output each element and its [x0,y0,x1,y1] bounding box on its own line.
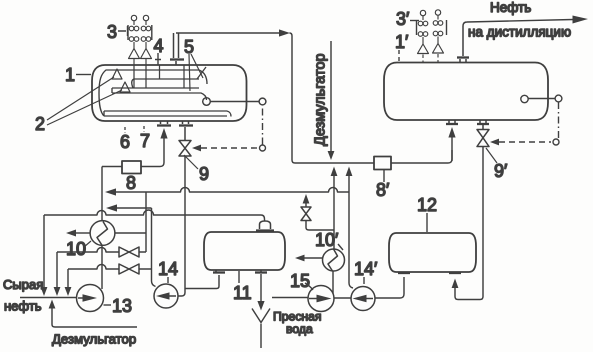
valve 9 drain pipe down to water line [178,156,185,296]
arrow on overhead line [279,29,290,36]
bowtie valve on y=269 [119,264,139,274]
level instrument circle inside vessel 1 [203,98,211,106]
recycle branch down x68 [65,269,72,296]
pump 14' [351,287,375,311]
svg-text:9: 9 [199,164,209,184]
mixer box 8 [122,161,141,174]
vessel 11 left nozzle [213,270,225,273]
pump 15 [308,286,334,312]
vessel 1' top outlet nozzle [457,26,469,63]
pump 14' riser to lines [346,167,353,289]
svg-text:10′: 10′ [315,230,339,250]
svg-text:3: 3 [107,22,117,42]
mixer box 8' [374,157,391,170]
svg-text:на дистилляцию: на дистилляцию [468,25,571,40]
heat exchanger 10' [323,249,345,271]
level tap line to shell [210,101,259,103]
vessel 1 electrode bar lower [104,111,231,117]
svg-text:Сырая: Сырая [3,277,43,292]
segment between pumps 15 and 14' [334,297,351,299]
label 10 [66,239,91,259]
vessel 12 right nozzle [449,272,461,273]
recycle water line L1 with arrow into crude riser [105,188,349,196]
label 3' [396,9,419,29]
crude riser x=102 down to exchanger 10 [101,167,103,221]
svg-text:13: 13 [112,296,132,316]
feed arrow up into vessel 1 [160,128,167,139]
svg-text:вода: вода [286,322,313,336]
valve line y=269 [68,265,152,270]
label 11 [233,271,252,303]
overhead drop pipe [290,33,375,163]
svg-text:нефть: нефть [4,299,42,314]
line box8 to crude riser [102,166,122,168]
outlet stub arrow from exchanger 10' [295,255,323,262]
vessel 1' drain nozzle [477,120,489,130]
vessel 11 right nozzle [255,270,267,273]
svg-text:3′: 3′ [396,9,410,29]
valve line y=252 [57,248,146,253]
svg-text:Дезмульгатор: Дезмульгатор [313,53,329,146]
svg-text:8′: 8′ [376,180,390,200]
bowtie valve on y=252 [119,247,139,257]
bushing 3 right post [141,15,152,65]
vessel 1' feed nozzle [446,120,458,124]
line pump15 to exchanger 10' [332,271,334,294]
branch vertical x146 from L1 [145,192,147,252]
water line W1 from valve 9 to settler 11 [44,210,265,221]
svg-text:15: 15 [290,271,310,291]
settler vessel 11 [204,232,285,270]
label 9 [184,155,209,184]
feed arrow up into vessel 1' [448,127,455,138]
external level circle [259,98,266,105]
label 6 [120,127,130,152]
bushing 3' right post [433,10,444,62]
svg-text:Дезмульгатор: Дезмульгатор [52,332,136,347]
svg-text:7: 7 [140,131,150,151]
vessel 1 bottom feed nozzle flange [157,121,171,126]
nozzle 4 on shell top [155,53,161,65]
waste water drain with funnel [252,274,270,348]
recycle branch down x44 [41,215,48,296]
vessel 1 drain nozzle flange [179,121,193,141]
recycle valve branch [301,194,334,230]
label 5 with leaders [184,37,203,91]
vessel 1 inner liner [99,67,207,116]
svg-text:1′: 1′ [395,32,409,52]
svg-text:11: 11 [233,283,252,303]
drain valve 9' [477,130,489,147]
heat exchanger 10 [90,221,115,246]
svg-text:10: 10 [66,239,86,259]
drain valve 9 [179,141,191,157]
demulsifier injection line bottom left [49,300,137,328]
drain from valve 9' into tank 12 [452,147,483,300]
second stage vessel 1' [384,63,548,121]
vessel 1 electrode bar upper [112,88,199,93]
vessel 11 top dome nozzle [256,221,274,231]
svg-text:8: 8 [126,173,136,193]
svg-text:14: 14 [158,259,178,279]
pump 14 suction from settler 11 [185,275,219,289]
feed riser from mixer 8 [141,139,164,167]
electrodehydrator vessel 1 shell [92,65,247,121]
level control dashed line to valve 9' [490,95,562,145]
electrode suspension rods and internal tubes [134,65,184,88]
bushing 3' side ticks [417,20,447,35]
label 3 [107,22,128,42]
heated water riser to mixer line [333,176,335,249]
label 12 [417,195,437,232]
svg-text:9′: 9′ [494,161,508,181]
level control dashed line to valve 9 [192,106,266,152]
recycle branch down x57 [54,252,61,296]
outlet stub arrow from exchanger 10 [66,230,90,237]
svg-text:12: 12 [417,195,437,215]
bushing 3 side ticks [128,25,152,40]
label 7 [140,126,150,151]
pump 14 [154,284,178,308]
crude oil feed line [20,297,77,299]
electrode hanger triangle 2b [120,82,130,92]
overhead oil line vessel1 to mixer 8' [176,32,279,34]
label 10' [315,230,343,250]
svg-text:14′: 14′ [354,259,378,279]
stub from exchanger 10 right [115,232,146,234]
recycle water line L2 with arrow [106,204,152,211]
label 9' [486,148,508,181]
label 14 [158,259,178,283]
label 13 [104,296,133,316]
label 8' [376,170,390,200]
label 1' [395,32,409,61]
svg-text:Нефть: Нефть [490,0,531,15]
label 2 with leaders [35,77,122,134]
svg-text:1: 1 [65,65,75,85]
svg-text:6: 6 [120,132,130,152]
label 15 [290,271,313,291]
bushing 3 left post [129,15,140,65]
bushing 3' left post [418,10,429,62]
demulsifier feed line vertical [328,41,335,160]
water tank vessel 12 [389,233,476,272]
vessel 1 top outlet nozzle [170,33,184,65]
oil to distillation line [463,16,588,27]
svg-text:4: 4 [154,36,164,56]
crude line exchanger 10 to pump 13 [101,245,103,289]
electrode hanger triangle 2a [112,69,122,79]
fresh water suction stub [272,297,308,299]
vessel 12 left nozzle [398,272,410,273]
label 14' [354,259,378,284]
pump 14' suction from tank 12 [375,277,404,298]
label 1 [65,65,91,85]
branch vertical x152 from L2 to pump 14 [152,208,156,287]
feed riser from mixer 8' [451,138,453,162]
pump 13 [77,285,104,312]
svg-text:2: 2 [35,114,45,134]
